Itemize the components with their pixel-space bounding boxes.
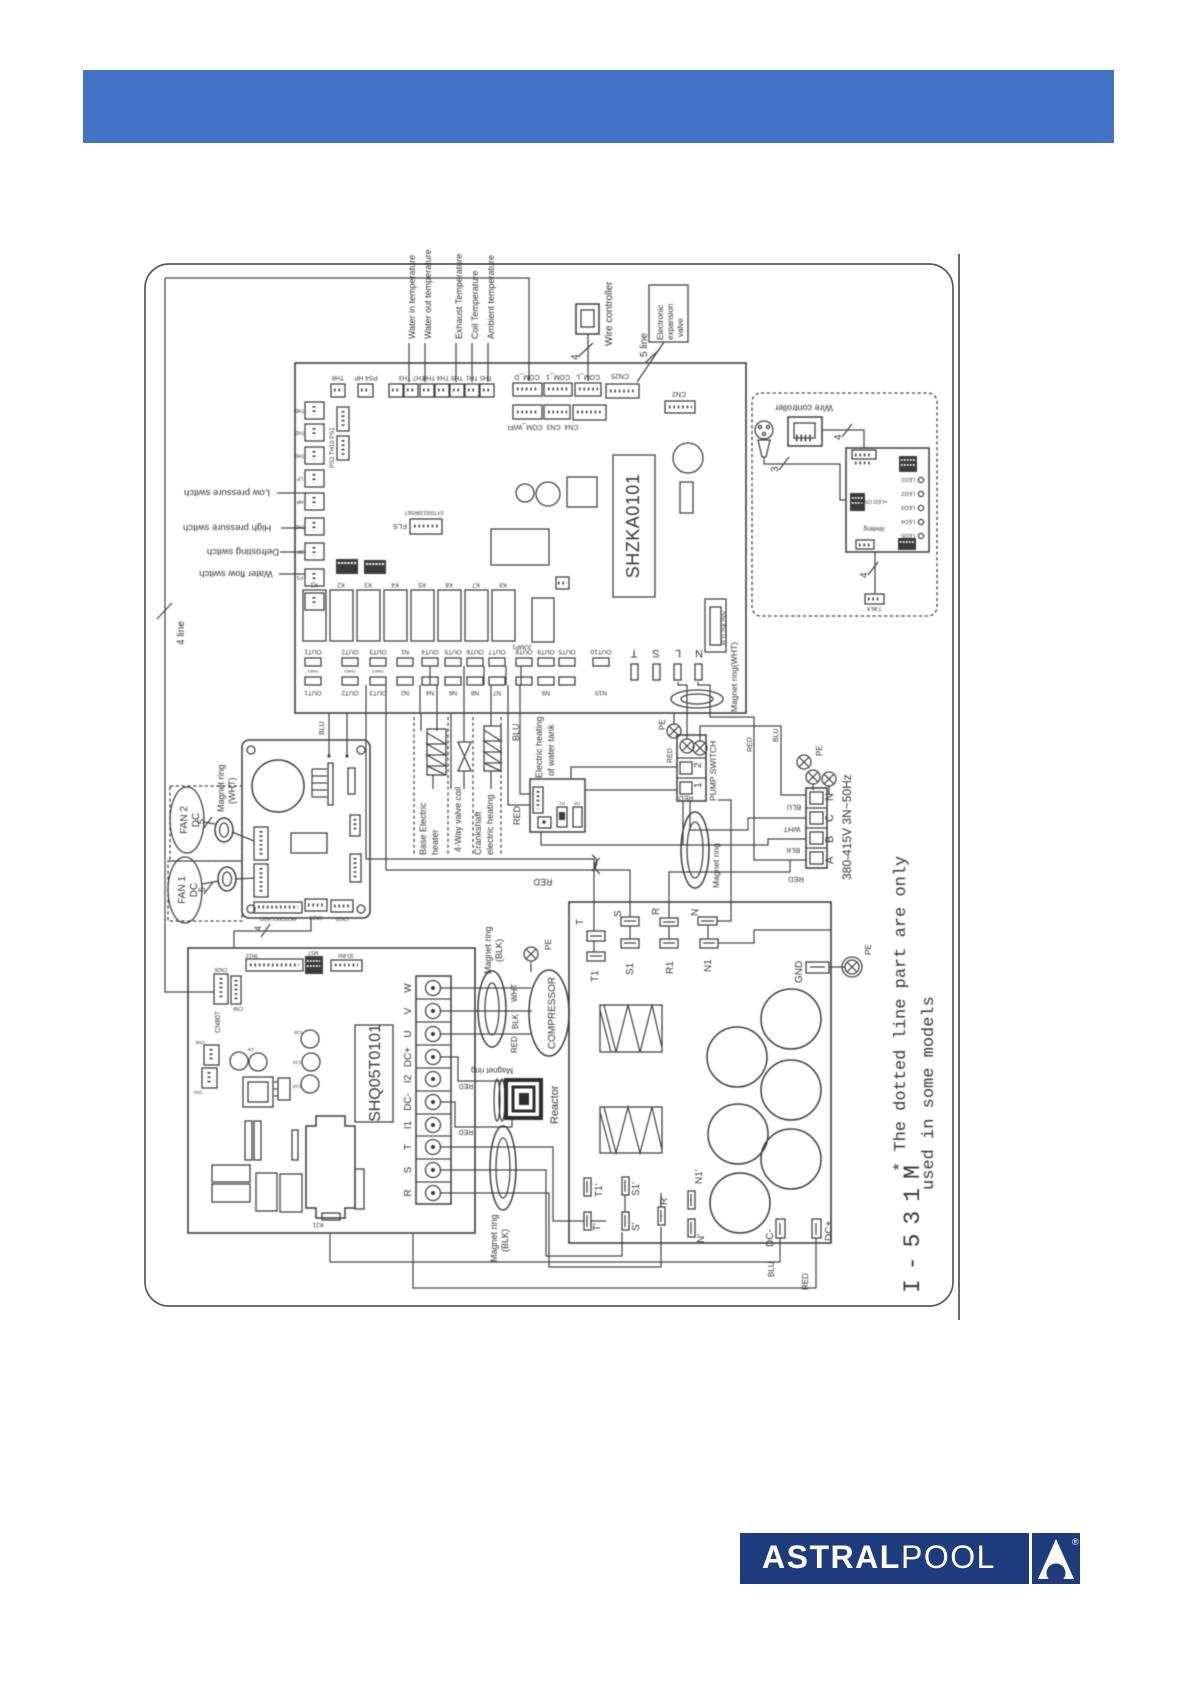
svg-text:T: T — [403, 1144, 414, 1150]
svg-text:HP: HP — [296, 498, 304, 504]
svg-text:S': S' — [631, 1222, 642, 1231]
PCB black block CN3 — [899, 456, 917, 472]
capacitor circle 5 — [761, 1129, 821, 1189]
inverter cap circles column — [301, 1030, 319, 1048]
svg-text:SY7000139RSET: SY7000139RSET — [404, 509, 443, 515]
wire DC+ to reactor — [441, 1057, 506, 1081]
magnet ring WHT ellipse — [671, 690, 723, 708]
svg-text:LED3: LED3 — [901, 504, 915, 510]
svg-text:4: 4 — [570, 354, 581, 360]
relay K1 — [303, 590, 326, 641]
svg-text:N: N — [695, 647, 703, 659]
svg-text:TH5 TH1: TH5 TH1 — [465, 374, 492, 381]
svg-text:RED: RED — [533, 877, 553, 887]
connector CN4 — [513, 405, 542, 419]
svg-text:5: 5 — [196, 819, 206, 824]
magnet ring BLK lower — [490, 1126, 516, 1210]
OUT terminal row 1 — [305, 658, 609, 666]
svg-text:ASTRAL: ASTRAL — [762, 1539, 901, 1575]
wire DC- to reactor — [441, 1102, 512, 1127]
svg-text:R: R — [403, 1189, 414, 1196]
svg-text:T-BLK: T-BLK — [866, 605, 882, 611]
svg-text:N10: N10 — [595, 689, 607, 696]
svg-text:(BLK): (BLK) — [500, 1229, 510, 1252]
svg-text:C16: C16 — [292, 1060, 301, 1065]
wire N pin through ring to A — [698, 682, 806, 860]
fuse N1 — [700, 939, 718, 948]
wire DC+ RED — [413, 1234, 816, 1288]
svg-text:TIME2: TIME2 — [343, 669, 356, 674]
capacitor circle 2 — [707, 1027, 767, 1087]
svg-text:PE: PE — [658, 719, 667, 730]
fuse S1' — [622, 1177, 629, 1195]
dashed box FAN1 — [168, 861, 242, 921]
svg-text:CN6: CN6 — [233, 1005, 243, 1011]
svg-text:WHT: WHT — [510, 984, 519, 1002]
svg-text:®: ® — [1072, 1537, 1079, 1547]
FAN 2 DC ellipse — [170, 787, 204, 853]
wire controller icon (detail) — [788, 417, 822, 446]
svg-text:WHT: WHT — [783, 825, 800, 834]
inverter terminal strip — [416, 976, 451, 1204]
inverter board SHQ05T0101 outline — [188, 948, 475, 1233]
svg-text:CN2: CN2 — [672, 390, 686, 397]
wires pump to terminal block — [690, 801, 806, 830]
svg-text:Electronic: Electronic — [656, 305, 665, 340]
heater coil (base electric heater) — [427, 729, 446, 775]
connector COM_WIFI — [573, 405, 606, 420]
inverter bar pair — [245, 1121, 252, 1160]
svg-text:N1': N1' — [694, 1169, 705, 1184]
svg-text:DC-: DC- — [765, 1229, 776, 1247]
relay K2 — [330, 590, 353, 641]
svg-text:C: C — [824, 814, 836, 822]
svg-text:RED: RED — [459, 1128, 474, 1135]
svg-text:Exhaust Temperature: Exhaust Temperature — [454, 254, 464, 339]
capacitor circle 6 — [710, 1173, 770, 1233]
crankshaft heater wire — [490, 713, 492, 726]
svg-text:OUT3: OUT3 — [369, 648, 387, 655]
svg-text:T': T' — [592, 1223, 603, 1231]
controller PCB box — [846, 448, 929, 552]
svg-text:SHQ05T0101: SHQ05T0101 — [367, 1024, 384, 1122]
fuse T1 — [587, 952, 605, 961]
long wire S run — [386, 713, 630, 917]
sensor connector TH8 — [331, 384, 345, 397]
svg-text:Magnet ring(WHT): Magnet ring(WHT) — [729, 642, 739, 712]
svg-text:OUT5: OUT5 — [444, 648, 462, 655]
svg-text:BLU: BLU — [773, 728, 780, 742]
svg-text:T1': T1' — [594, 1183, 605, 1197]
heater coil (crankshaft) — [484, 726, 501, 771]
svg-text:+LED CN3: +LED CN3 — [861, 498, 887, 504]
inverter black block MST — [305, 956, 323, 974]
wires U V W to compressor — [441, 987, 531, 989]
svg-text:A: A — [824, 856, 836, 864]
capacitor circle 3 — [761, 1060, 821, 1120]
svg-text:FLS: FLS — [393, 522, 407, 531]
svg-text:H2: H2 — [574, 801, 580, 806]
base electric heater wires — [420, 713, 422, 731]
svg-text:3N13: 3N13 — [246, 952, 258, 958]
svg-text:S: S — [613, 910, 624, 917]
svg-text:FAN 1: FAN 1 — [177, 876, 188, 904]
small circle pair on board — [516, 484, 534, 502]
relay K7 — [465, 590, 488, 641]
svg-text:R: R — [651, 908, 662, 915]
compressor PE screw — [524, 947, 538, 961]
svg-text:OUT7: OUT7 — [488, 648, 506, 655]
svg-text:Water flow switch: Water flow switch — [199, 568, 273, 579]
svg-text:LED1: LED1 — [901, 476, 915, 482]
fuse S1 — [621, 939, 639, 948]
wire N fuse right up — [717, 800, 731, 921]
svg-text:380-415V 3N~50Hz: 380-415V 3N~50Hz — [840, 774, 854, 880]
vertical rect component — [680, 482, 693, 513]
svg-text:OUT8: OUT8 — [515, 648, 533, 655]
svg-text:LED4: LED4 — [901, 518, 915, 524]
svg-text:W: W — [403, 983, 414, 993]
relay K8 — [492, 590, 515, 641]
connector PS1 — [337, 436, 349, 460]
svg-text:TIME3: TIME3 — [371, 669, 384, 674]
fan PCB small rect — [348, 768, 355, 794]
svg-text:COM_D: COM_D — [514, 373, 539, 380]
wire R fuse to RED — [669, 860, 790, 918]
wire fan board to inverter (4) — [234, 918, 311, 948]
svg-text:PUMP SWITCH: PUMP SWITCH — [708, 741, 718, 801]
svg-text:DC+: DC+ — [403, 1047, 414, 1067]
svg-text:Defrosting switch: Defrosting switch — [207, 546, 279, 557]
capacitor circle 4 — [708, 1104, 768, 1164]
svg-text:LED2: LED2 — [901, 490, 915, 496]
label SHQ05T0101 — [355, 1025, 393, 1122]
terminal block A B C N — [806, 788, 827, 868]
svg-text:High pressure switch: High pressure switch — [183, 522, 271, 533]
main controller board SHZKA0101 outline — [295, 363, 746, 713]
svg-text:C30: C30 — [293, 1030, 302, 1035]
svg-text:Base Electric: Base Electric — [418, 802, 428, 855]
svg-text:BLU: BLU — [787, 803, 802, 812]
fan PCB right connectors — [350, 815, 360, 836]
inverter big IC K21 — [306, 1116, 355, 1218]
svg-text:TIME1: TIME1 — [306, 669, 319, 674]
svg-text:C8: C8 — [248, 1047, 254, 1052]
mini connector WHT-BLK — [865, 594, 884, 604]
scan edge vertical line — [958, 254, 960, 1320]
svg-text:DF: DF — [297, 548, 304, 554]
fan PCB capacitor circle — [252, 760, 304, 812]
svg-text:4-Way valve coil: 4-Way valve coil — [453, 787, 463, 852]
sensor connector TH7 — [404, 384, 418, 397]
sensor connector TH3 — [420, 384, 434, 397]
inverter relay — [243, 1077, 273, 1107]
round 3-pin plug — [755, 421, 773, 439]
electronic expansion valve box — [649, 285, 688, 342]
svg-text:expansion: expansion — [666, 304, 675, 340]
svg-text:L: L — [675, 647, 681, 659]
svg-text:N1: N1 — [703, 959, 714, 972]
svg-text:C18: C18 — [292, 1084, 301, 1089]
svg-text:CN1: CN1 — [193, 1090, 202, 1095]
fuse T1' — [584, 1178, 591, 1196]
svg-text:CN25: CN25 — [611, 372, 629, 379]
capacitor box — [569, 902, 831, 1243]
svg-text:S: S — [403, 1166, 414, 1173]
compressor ellipse — [529, 970, 569, 1056]
svg-text:DC-: DC- — [403, 1093, 414, 1111]
DIP switch block 2 — [364, 560, 386, 574]
IC rect on board — [491, 529, 549, 565]
sensor wire stems — [408, 343, 410, 382]
magnet ring (terminal) — [681, 812, 709, 888]
svg-text:MST: MST — [308, 949, 319, 955]
svg-text:K21: K21 — [312, 1221, 323, 1227]
svg-text:K4: K4 — [391, 581, 399, 587]
svg-text:PS4 HP: PS4 HP — [354, 374, 377, 381]
svg-text:OUT2: OUT2 — [341, 689, 359, 696]
inverter left connector CN6 — [231, 976, 241, 1004]
relay K4 — [384, 590, 407, 641]
svg-text:TH8: TH8 — [295, 407, 305, 413]
valve wire diagonal to CN25 — [637, 342, 664, 382]
svg-text:OUT5: OUT5 — [558, 648, 576, 655]
header bar — [83, 70, 1114, 143]
base electric heater dashed bounds — [413, 717, 415, 856]
svg-text:CN26: CN26 — [214, 966, 227, 972]
plug connector column on left edge — [305, 402, 324, 610]
wire DC- BLU — [330, 1234, 780, 1262]
svg-text:RED: RED — [512, 805, 522, 825]
svg-text:PE: PE — [815, 745, 824, 756]
svg-text:electric heating: electric heating — [485, 794, 495, 855]
svg-text:N9: N9 — [541, 689, 550, 696]
DIP switch block 1 — [336, 559, 358, 574]
svg-text:2: 2 — [693, 762, 704, 768]
svg-text:K2: K2 — [337, 581, 345, 587]
svg-text:GND: GND — [794, 961, 805, 983]
square component on board — [567, 477, 597, 507]
svg-text:RED: RED — [679, 794, 694, 801]
svg-text:Magnet ring: Magnet ring — [489, 1214, 499, 1262]
svg-text:OUT1: OUT1 — [304, 648, 322, 655]
svg-text:Wire controller: Wire controller — [604, 281, 615, 346]
svg-text:heater: heater — [430, 829, 440, 855]
svg-text:PS2 TH10 PS1: PS2 TH10 PS1 — [330, 427, 336, 468]
pump switch block — [677, 735, 706, 801]
svg-text:Coil Temperature: Coil Temperature — [470, 271, 480, 339]
fuse N1' — [688, 1191, 695, 1209]
PCB bottom connector — [856, 540, 874, 549]
svg-text:TH7 TH3: TH7 TH3 — [398, 374, 425, 381]
svg-text:Water out temperature: Water out temperature — [423, 249, 433, 339]
fuse N' — [688, 1219, 695, 1237]
svg-text:N: N — [824, 793, 836, 801]
fuse DC- — [776, 1219, 785, 1238]
svg-text:N7: N7 — [492, 689, 501, 696]
relay JUMP1 — [532, 598, 554, 642]
inverter bottom rects — [212, 1165, 250, 1182]
wire controller stem — [587, 334, 589, 381]
fuse R1 — [660, 939, 678, 948]
svg-text:Low pressure switch: Low pressure switch — [184, 487, 270, 498]
connector FLS — [410, 519, 442, 534]
dashed box FAN2 — [170, 786, 242, 861]
svg-text:N8: N8 — [470, 689, 479, 696]
inverter left connector CN26 — [214, 974, 228, 1004]
big circle on board — [673, 443, 703, 473]
PCB LED column — [918, 477, 923, 482]
svg-text:I2: I2 — [403, 1074, 414, 1083]
svg-text:N': N' — [696, 1234, 707, 1243]
inverter small connectors CN5 CN1 — [204, 1045, 219, 1065]
inverter small bar — [292, 1130, 298, 1160]
svg-text:5 line: 5 line — [639, 333, 650, 357]
svg-text:COMPRESSOR: COMPRESSOR — [547, 977, 558, 1049]
svg-text:OUT2: OUT2 — [341, 648, 359, 655]
inverter transistor — [278, 1078, 290, 1100]
connector CN25 — [606, 384, 639, 398]
svg-text:I-531M: I-531M — [900, 1156, 926, 1293]
4-way valve coil wires — [450, 713, 452, 789]
svg-text:Magnet ring: Magnet ring — [483, 926, 493, 974]
sensor connector PS4 — [358, 384, 373, 397]
wire marker 4 line — [157, 603, 172, 619]
small 3pin connector — [556, 577, 569, 589]
svg-text:N4: N4 — [425, 689, 434, 696]
OUT row 1 link wires — [429, 666, 431, 685]
svg-text:3D-Bld: 3D-Bld — [338, 952, 354, 958]
svg-text:TH8: TH8 — [331, 374, 344, 381]
fan PCB IC — [291, 833, 327, 853]
wires R S T to fuses — [441, 1147, 584, 1221]
svg-text:N2: N2 — [400, 689, 409, 696]
capacitor circle 1 — [761, 989, 821, 1049]
inverter small circles — [230, 1052, 248, 1070]
svg-text:Reactor: Reactor — [549, 1085, 561, 1124]
svg-text:DC+: DC+ — [824, 1221, 835, 1241]
fan2 wires — [204, 822, 215, 824]
PCB black block CN2 — [898, 538, 916, 550]
PCB top-left connector — [852, 450, 876, 459]
svg-text:4: 4 — [833, 434, 844, 440]
relay K5 — [411, 590, 434, 641]
wire top bundle to COM_D — [165, 278, 529, 381]
svg-text:Weiliing: Weiliing — [864, 525, 885, 531]
svg-text:1: 1 — [693, 782, 704, 788]
fan connector CN2 (fan2) — [254, 827, 268, 860]
fan PCB heatsink — [312, 769, 327, 797]
svg-text:Magnet ring: Magnet ring — [711, 843, 721, 888]
wire left bundle down to inverter CN — [165, 278, 214, 992]
svg-text:OUT9: OUT9 — [537, 648, 555, 655]
sensor connector TH4 — [450, 384, 464, 397]
svg-text:BLU: BLU — [767, 1261, 776, 1277]
connector CN2 — [665, 401, 695, 413]
small ring at reactor — [494, 1079, 500, 1121]
svg-text:S: S — [652, 647, 659, 659]
svg-text:5: 5 — [197, 887, 207, 892]
svg-text:4 line: 4 line — [176, 621, 187, 645]
pump switch PE screw — [667, 724, 681, 738]
connector PS2 — [337, 407, 349, 431]
svg-text:T: T — [630, 647, 637, 659]
svg-text:TH9: TH9 — [295, 452, 305, 458]
svg-text:RED: RED — [510, 1036, 519, 1053]
svg-text:Crankshaft: Crankshaft — [473, 811, 483, 855]
svg-text:N6: N6 — [448, 689, 457, 696]
dashed box wire controller detail — [752, 393, 937, 616]
astralpool logo — [740, 1533, 1080, 1584]
svg-text:FAN 2: FAN 2 — [179, 806, 190, 834]
fuse DC+ — [812, 1219, 821, 1238]
inverter top connector CN13 — [246, 959, 303, 971]
svg-text:Water in temperature: Water in temperature — [407, 255, 417, 339]
svg-text:BLK: BLK — [511, 1013, 520, 1029]
svg-text:3: 3 — [770, 466, 781, 472]
svg-text:OUT4: OUT4 — [421, 648, 439, 655]
svg-text:4: 4 — [253, 926, 263, 931]
svg-text:U: U — [403, 1030, 414, 1037]
magnet ring fan2 — [215, 818, 233, 842]
connector COM_L — [575, 383, 601, 396]
svg-text:OUT3: OUT3 — [369, 689, 387, 696]
svg-text:OUT10: OUT10 — [590, 648, 611, 655]
svg-text:V: V — [403, 1007, 414, 1014]
sensor connector TH5 — [465, 384, 479, 397]
svg-text:TH2: TH2 — [295, 429, 305, 435]
svg-text:RED: RED — [788, 875, 804, 884]
svg-text:T1: T1 — [590, 970, 601, 982]
svg-text:K7: K7 — [472, 581, 480, 587]
svg-text:K8: K8 — [499, 581, 507, 587]
svg-text:BLU: BLU — [319, 721, 326, 735]
wire controller icon (top) — [576, 304, 599, 334]
wire BLU to tank heater box — [508, 713, 531, 805]
fan1 wires — [202, 881, 219, 884]
reactor — [506, 1080, 541, 1118]
svg-text:4: 4 — [859, 572, 870, 578]
svg-text:FS: FS — [296, 574, 303, 580]
svg-text:RED: RED — [667, 748, 674, 763]
svg-text:PE: PE — [864, 944, 873, 955]
svg-text:PL11 25A 250V: PL11 25A 250V — [722, 610, 728, 645]
svg-text:K5: K5 — [418, 581, 426, 587]
PE screw stem from board — [673, 713, 675, 725]
svg-text:K6: K6 — [445, 581, 453, 587]
svg-text:RED: RED — [459, 1082, 474, 1089]
fuse S' — [622, 1212, 629, 1230]
svg-text:of water tank: of water tank — [546, 724, 556, 776]
svg-text:(BLK): (BLK) — [494, 939, 504, 962]
wire PCB down to plug connector — [874, 552, 876, 594]
svg-text:S1': S1' — [631, 1182, 642, 1196]
svg-text:OUT1: OUT1 — [304, 689, 322, 696]
connector COM_D — [513, 383, 542, 396]
svg-text:H1: H1 — [559, 801, 565, 806]
magnet ring BLK upper — [478, 971, 506, 1047]
svg-text:SHZKA0101: SHZKA0101 — [623, 474, 643, 579]
wires from tank heater box — [571, 767, 677, 779]
svg-text:R1: R1 — [665, 961, 676, 974]
svg-text:Magnet ring: Magnet ring — [216, 764, 226, 812]
svg-text:POOL: POOL — [901, 1539, 996, 1575]
svg-text:Electric heating: Electric heating — [534, 716, 544, 778]
relay K3 — [357, 590, 380, 641]
terminal screws — [806, 770, 820, 784]
svg-text:I1: I1 — [403, 1120, 414, 1129]
PCB left black block — [850, 493, 865, 511]
